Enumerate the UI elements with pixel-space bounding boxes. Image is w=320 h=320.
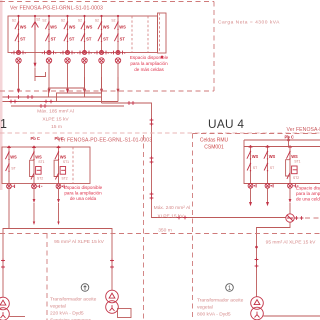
note: espacio disponible para la ampliación de más celdas [130,55,169,72]
wire: UAU4 bay1 drop with arrow [249,188,252,206]
transformer T3 [251,297,320,320]
cable run 1 [3,95,102,99]
cable joints left drop [1,259,5,269]
UAU1 spare cell divider [72,147,74,184]
svg-text:Ver FENOSA-PD-EE-GRNL-S1-01-00: Ver FENOSA-PD-EE-GRNL-S1-01-0003 [58,138,153,144]
feeder bay 2 [42,15,57,94]
cable note: Máx. 185 mm2 Al XLPE 15 kV 15 m [37,109,74,131]
svg-text:vegetal: vegetal [50,304,66,310]
svg-text:Máx. 185 mm² Al: Máx. 185 mm² Al [37,109,74,115]
cable to UAU 4: staircase and long feeder [102,101,286,219]
incoming MV line to UAU4 [244,139,320,141]
feeder bay 1 (WS switch) [11,15,26,94]
transformer T1 (cropped left) [0,297,25,320]
svg-text:de una celda: de una celda [70,196,97,201]
UAU4 switchgear enclosure box (cropped right) [244,140,320,184]
svg-text:Celdas RMU: Celdas RMU [200,138,229,144]
node bay tops UAU1 [8,146,60,148]
section divider dashed x143.5 [143,135,145,320]
UAU4 bay 3 fused feeder [286,145,301,188]
svg-text:15 m: 15 m [51,124,62,130]
joint mark on T3 drop [255,246,259,268]
svg-text:XLPE 15 kV: XLPE 15 kV [157,214,184,220]
transformer T2 servicios comunes [106,290,131,317]
wire: UAU1 bay3 drop with arrow [57,189,60,226]
svg-text:Pb C: Pb C [285,134,294,139]
svg-text:de una celda: de una celda [296,197,320,202]
svg-text:Transformador aceite: Transformador aceite [50,297,97,303]
cable joint circle [286,214,320,222]
wire: UAU1 bay1 drop [8,189,10,229]
svg-text:Ver FENOSA-PD-EE-GRNL-S1-01-00: Ver FENOSA-PD-EE-GRNL-S1-01-0003 [287,127,320,133]
svg-text:S2: S2 [36,18,40,22]
section divider dashed x47 [46,234,48,320]
cable run 3 [11,104,124,108]
wire: joint to transformer T3 [257,222,291,297]
svg-text:Transformador aceite: Transformador aceite [197,298,244,304]
LV cable run to transformers [3,229,112,298]
top switchgear annex cell [158,13,167,58]
svg-text:Máx. 240 mm² Al: Máx. 240 mm² Al [154,205,191,211]
wire: UAU4 bay3 drop to joint [289,188,292,214]
svg-text:Espacio disponible: Espacio disponible [296,186,320,191]
node Pb C [285,134,294,146]
section boundary dashed line transformer row [0,233,320,235]
boundary dashed rectangle of existing centre CSM001 [0,2,214,92]
symbol: circled 1 [226,284,234,292]
note: espacio disponible para la ampliación de una celda (UAU4) [296,186,320,202]
svg-text:350 m: 350 m [158,228,172,234]
svg-text:Pb C: Pb C [31,136,40,141]
feeder bay 3 [60,15,75,94]
wire: bay 6 drop to cable run [117,77,119,102]
node bay tops UAU4 [249,145,268,147]
svg-text:95 mm² Al XLPE 15 kV: 95 mm² Al XLPE 15 kV [54,239,104,245]
symbol: circled up arrow [81,284,89,292]
svg-text:para la ampliación: para la ampliación [64,191,102,196]
svg-text:Ver FENOSA-PG-EI-GRNL-S1-01-00: Ver FENOSA-PG-EI-GRNL-S1-01-0003 [10,6,103,12]
svg-text:Pb C: Pb C [55,136,64,141]
UAU1 bay 2 fused feeder [30,146,45,189]
wire: bay 4 drop to cable run [49,77,85,97]
wire: UAU1 bay2 drop with arrow [33,189,36,226]
UAU4 bay 1 switch [247,145,259,188]
svg-text:220 kVA - Dyd5: 220 kVA - Dyd5 [50,311,84,317]
top switchgear enclosure box [8,16,158,53]
svg-text:XLPE 15 kV: XLPE 15 kV [42,117,69,123]
feeder bay 6 [111,15,126,94]
svg-text:UAU 4: UAU 4 [208,117,244,131]
spare cell divider 1 [131,16,133,53]
spare cell divider 2 [147,16,149,53]
cable note: Máx. 240 mm2 Al XLPE 15 kV 350 m [154,205,191,234]
feeder bay 5 [94,15,109,94]
note: transformador servicios comunes [50,297,97,320]
left pink scan band [0,0,3,190]
section boundary dashed line UAU row [0,132,320,134]
wire: bay 5 drop to staircase [57,77,102,102]
svg-text:vegetal: vegetal [197,305,213,311]
label: Celdas RMU CSM001 [200,138,229,151]
feeder bay 4 [77,15,92,94]
svg-text:para la ampliación: para la ampliación [296,191,320,196]
note: espacio disponible para la ampliación de una celda (UAU1) [64,185,103,201]
svg-text:95 mm² Al XLPE 15 kV: 95 mm² Al XLPE 15 kV [266,240,316,246]
wire: UAU4 bay2 drop with arrow [266,188,269,206]
svg-text:800 kVA - Dyd5: 800 kVA - Dyd5 [197,312,231,318]
UAU1 bay 3 fused feeder [54,146,69,189]
riser bay with up arrow [32,15,46,81]
svg-text:CSM001: CSM001 [204,145,224,151]
svg-text:Espacio disponible: Espacio disponible [64,185,103,190]
UAU1 bay 1 incomer switch [5,146,17,189]
note: transformador 800 kVA [197,298,244,318]
celdas RMU dashed enclosure [193,134,320,320]
cable joints middle drop [110,259,114,269]
svg-text:Espacio disponible: Espacio disponible [130,55,169,60]
svg-text:de más celdas: de más celdas [134,67,164,72]
svg-text:para la ampliación: para la ampliación [130,61,168,66]
svg-text:1: 1 [0,117,7,131]
UAU4 bay 2 switch [264,145,276,188]
svg-text:Carga Neta = 4300 kVA: Carga Neta = 4300 kVA [218,20,280,26]
cable run 2 [3,100,119,104]
UAU1 switchgear enclosure box [2,147,90,184]
